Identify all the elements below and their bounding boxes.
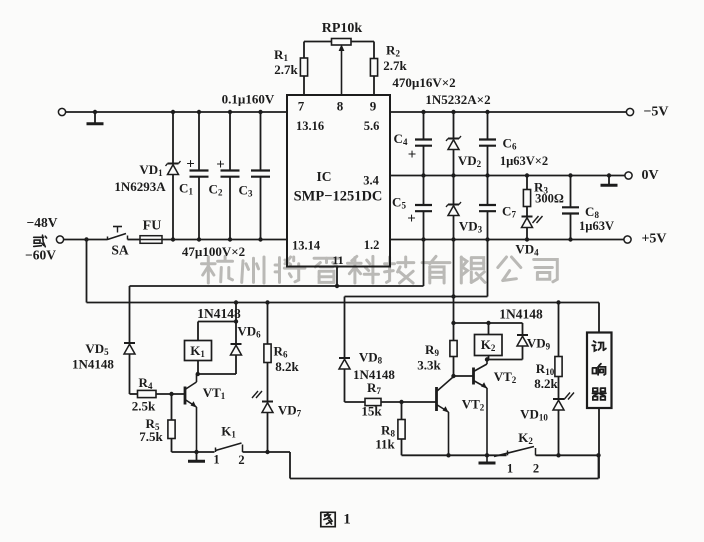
svg-text:1: 1 [213, 453, 219, 467]
svg-text:2: 2 [238, 453, 244, 467]
junction [84, 237, 88, 241]
diode VD8 [344, 297, 346, 358]
svg-text:15k: 15k [361, 404, 382, 419]
junction [197, 237, 201, 241]
junction [171, 110, 175, 114]
wire [390, 239, 624, 241]
resistor R3 [526, 176, 528, 190]
svg-text:13.16: 13.16 [296, 119, 324, 133]
junction [197, 110, 201, 114]
junction [486, 321, 490, 325]
junction [171, 237, 175, 241]
wire [351, 41, 374, 43]
wire [423, 112, 425, 139]
wire [345, 296, 488, 298]
svg-text:0.1µ160V: 0.1µ160V [222, 92, 275, 107]
diode VD7 [262, 401, 273, 403]
wire [487, 176, 489, 205]
svg-text:1N6293A: 1N6293A [114, 179, 166, 194]
resistor R7 [345, 401, 366, 403]
diode VD3 [448, 204, 459, 206]
caption figure 1 [321, 512, 335, 526]
svg-text:FU: FU [143, 219, 162, 234]
wire [598, 408, 600, 479]
junction [607, 173, 611, 177]
diode VD2 [448, 138, 459, 140]
svg-text:+5V: +5V [641, 232, 666, 247]
wire [229, 112, 231, 171]
junction [335, 284, 339, 288]
junction [556, 453, 560, 457]
junction [421, 173, 425, 177]
diode VD1 [168, 163, 179, 165]
node input bottom terminal [56, 236, 63, 243]
svg-text:2.5k: 2.5k [132, 399, 156, 414]
junction [451, 294, 455, 298]
svg-text:8: 8 [337, 99, 344, 114]
junction [228, 237, 232, 241]
potentiometer RP [332, 39, 352, 46]
switch contact K2 [507, 451, 509, 456]
svg-text:+: + [407, 211, 416, 227]
svg-text:11: 11 [332, 253, 343, 267]
diode VD10 [553, 398, 564, 400]
svg-text:1N4148: 1N4148 [72, 357, 114, 372]
svg-text:8.2k: 8.2k [534, 376, 558, 391]
junction [258, 237, 262, 241]
junction [228, 110, 232, 114]
svg-text:8.2k: 8.2k [275, 359, 299, 374]
buzzer [587, 333, 612, 409]
junction [265, 450, 269, 454]
svg-text:1: 1 [343, 512, 351, 528]
resistor R8 [401, 402, 403, 420]
wire [390, 111, 627, 113]
svg-text:13.14: 13.14 [292, 239, 321, 253]
svg-text:7: 7 [298, 99, 305, 114]
capacitor C3 [251, 169, 270, 171]
transistor VT1 [184, 387, 187, 405]
switch SA [107, 237, 109, 241]
junction [596, 453, 600, 457]
wire [390, 175, 625, 177]
capacitor C8 [562, 206, 579, 208]
junction [451, 173, 455, 177]
wire [487, 112, 489, 139]
ground [196, 452, 198, 460]
svg-text:470µ16V×2: 470µ16V×2 [392, 75, 455, 90]
resistor R5 [171, 394, 173, 420]
decorative watermark [202, 256, 558, 283]
wire [197, 451, 215, 453]
junction [446, 453, 450, 457]
junction [421, 237, 425, 241]
junction [485, 173, 489, 177]
junction [485, 110, 489, 114]
svg-text:1: 1 [507, 462, 513, 476]
wire [402, 454, 507, 456]
svg-text:7.5k: 7.5k [139, 429, 163, 444]
ground [486, 461, 488, 463]
wire [536, 454, 599, 456]
svg-text:+: + [216, 157, 225, 173]
svg-text:11k: 11k [375, 437, 395, 452]
relay coil K2 [488, 323, 490, 335]
wire [304, 41, 332, 43]
ground [608, 176, 610, 185]
svg-text:IC: IC [316, 169, 331, 184]
ground [94, 112, 96, 123]
wire [198, 321, 236, 323]
junction [451, 110, 455, 114]
junction [169, 392, 173, 396]
svg-text:SMP−1251DC: SMP−1251DC [294, 189, 383, 205]
capacitor C6 [479, 138, 496, 140]
wire [198, 373, 236, 375]
junction [234, 319, 238, 323]
op-amp U1 IC SMP-1251DC [287, 95, 390, 267]
svg-text:47µ100V×2: 47µ100V×2 [182, 244, 245, 259]
wire [289, 452, 291, 479]
junction [399, 400, 403, 404]
transistor VT2 output [472, 368, 475, 385]
wire [487, 240, 489, 297]
wire [130, 285, 424, 287]
junction [485, 237, 489, 241]
svg-text:−48V: −48V [27, 215, 58, 230]
svg-text:5.6: 5.6 [364, 119, 380, 133]
junction [196, 372, 200, 376]
svg-text:1N5232A×2: 1N5232A×2 [425, 92, 490, 107]
svg-text:1µ63V×2: 1µ63V×2 [500, 154, 548, 168]
junction [451, 321, 455, 325]
wire [86, 240, 88, 303]
wire [570, 176, 572, 208]
wire [454, 375, 474, 377]
junction [568, 237, 572, 241]
svg-text:2.7k: 2.7k [274, 62, 298, 77]
diode VD9 [522, 323, 524, 335]
svg-text:3.4: 3.4 [363, 174, 379, 188]
wire [162, 239, 287, 241]
node input top terminal [58, 108, 65, 115]
junction [568, 173, 572, 177]
wire [453, 176, 455, 205]
junction [258, 110, 262, 114]
wire [336, 267, 338, 287]
wire [423, 240, 425, 287]
wire [66, 111, 288, 113]
node 0V terminal [625, 172, 632, 179]
wire [243, 451, 291, 453]
svg-text:−60V: −60V [25, 248, 56, 263]
junction [525, 237, 529, 241]
svg-text:1µ63V: 1µ63V [579, 219, 614, 233]
svg-text:9: 9 [370, 99, 377, 114]
resistor R9 [453, 323, 455, 341]
wire [260, 112, 262, 171]
relay coil K1 [197, 322, 199, 341]
capacitor C7 [479, 204, 496, 206]
svg-text:2: 2 [533, 462, 539, 476]
resistor R10 [558, 303, 560, 357]
diode VD4 [522, 216, 533, 218]
svg-text:1.2: 1.2 [364, 238, 380, 252]
wire [453, 112, 455, 139]
svg-text:300Ω: 300Ω [535, 192, 564, 206]
junction [234, 300, 238, 304]
wire [63, 239, 107, 241]
wire [453, 240, 455, 324]
svg-text:1N4148: 1N4148 [197, 306, 241, 321]
wire [172, 112, 174, 163]
svg-text:+: + [186, 157, 195, 173]
junction [451, 374, 455, 378]
label input alternative [34, 236, 44, 238]
fuse FU [140, 236, 162, 244]
wire [198, 112, 200, 171]
wire [598, 303, 600, 333]
svg-text:−5V: −5V [643, 105, 668, 120]
resistor R4 [130, 393, 138, 395]
wire [128, 239, 141, 241]
switch contact K1 [215, 448, 217, 453]
capacitor C5 [415, 204, 432, 206]
capacitor C2 [221, 169, 240, 171]
capacitor C1 [190, 169, 209, 171]
svg-text:+: + [408, 147, 417, 163]
transistor VT2 driver [435, 387, 438, 411]
svg-text:2.7k: 2.7k [383, 58, 407, 73]
junction [93, 110, 97, 114]
junction [421, 110, 425, 114]
resistor R6 [267, 303, 269, 345]
node +5V terminal [624, 236, 631, 243]
resistor R1 [303, 42, 305, 59]
wire [87, 302, 600, 304]
junction [485, 357, 489, 361]
svg-text:SA: SA [111, 243, 129, 258]
svg-text:1N4148: 1N4148 [499, 307, 543, 322]
label VT1 emitter junction [194, 450, 198, 454]
wire [454, 322, 523, 324]
resistor R2 [373, 42, 375, 59]
junction [451, 237, 455, 241]
node -5V terminal [626, 108, 633, 115]
diode VD6 [235, 303, 237, 344]
wire [423, 176, 425, 205]
diode VD5 [129, 286, 131, 343]
capacitor C4 [415, 138, 432, 140]
svg-text:3.3k: 3.3k [417, 358, 441, 373]
svg-text:0V: 0V [641, 168, 658, 183]
svg-text:RP10k: RP10k [322, 21, 363, 36]
junction [525, 173, 529, 177]
